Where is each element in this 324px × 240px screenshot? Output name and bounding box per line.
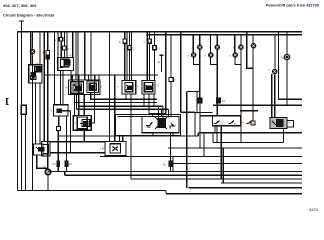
relay K9 [142,81,155,95]
svg-text:M: M [281,56,284,60]
feeder y163.5 [171,163,302,165]
svg-text:406, 407, 408, 409: 406, 407, 408, 409 [3,3,37,8]
bottom bus L3 [131,178,302,180]
relay K2 outer enclosure [115,115,180,136]
svg-text:a: a [247,45,249,49]
svg-text:4273: 4273 [309,207,319,212]
wire x72.7 [72,32,74,58]
wire K10 bottom [283,129,285,143]
pin bar P2 [65,161,67,167]
wire x64.5 upper [64,32,66,47]
wire x54.5 [54,32,56,105]
fuse F3 [46,51,50,60]
feeder y148 [168,147,302,149]
wire x287 lower [286,60,288,106]
wire K6 bottom a [59,71,61,105]
wire x61.2 mid [60,41,62,57]
wire E1 bottom to y109.3 [76,95,78,110]
wire x58 down [57,131,59,162]
fuse FB2 [129,32,131,46]
feeder y106.3 [79,105,163,107]
svg-text:x: x [205,54,207,58]
wire x33 to relay K1 [30,32,32,65]
wire x246.75 elbow to lamp line [247,32,253,69]
relay K5 box A [33,144,43,155]
wire x88 [88,75,90,81]
bus A (top supply rail) [18,31,303,33]
fuse FB1 [124,32,126,40]
switch box S3 [213,116,241,126]
svg-text:x: x [101,85,103,89]
wire E3 down [252,48,254,121]
wire x64.5 mid [64,50,66,57]
wire x84.75 [84,32,86,81]
wire x61.2 upper [60,32,62,38]
wire S3 top left [195,113,213,116]
svg-text:a: a [50,108,52,112]
contact K5 [39,148,45,151]
bottom bus L5 [188,187,302,189]
wire K2 bottom c [152,134,154,137]
relay K7 [54,105,69,116]
wire B elbow [211,58,218,65]
wire x85.4 E1 to K3 [83,95,85,116]
contact K2 left [146,122,153,127]
cap bar C2 [217,98,220,103]
svg-text:x: x [175,124,177,128]
wire X2 down pair [272,74,275,118]
relay K2 [142,116,179,132]
svg-text:Je: Je [247,122,251,126]
wire x95 [94,75,96,81]
wire below B [216,50,218,116]
lamp E2 [30,49,34,53]
wire x32.5 lower [32,54,34,190]
wire P1 down [57,167,59,172]
bottom bus L1 [48,170,302,172]
wire K2outer to K4 b [122,136,124,142]
bottom bus L2 [65,171,302,175]
svg-text:x: x [188,54,190,58]
wire K8 bottom a [125,94,127,99]
wire x127 [126,32,128,81]
wire x287 upper [286,32,288,55]
svg-text:Ja: Ja [163,163,167,167]
wire node down [47,175,49,191]
svg-text:+: + [137,85,139,89]
wire x39 to relay K1 [39,32,41,65]
svg-text:U: U [158,47,160,51]
svg-text:+H: +H [65,86,69,90]
relay K8 [122,81,136,95]
wire K5 bottom joint [36,167,48,169]
contact H1 [229,121,235,124]
bus B (second supply rail) [148,34,302,36]
connector ring M [284,54,289,59]
relay K5 box B [41,142,50,157]
wire K2 bottom b [172,134,174,137]
node X1 [45,169,51,175]
feeder y102.5 [75,102,157,104]
feeder y105.3 [213,104,302,106]
wire x47.7 long to node [47,32,49,170]
left edge bracket connector [7,99,9,105]
wire S2 bottom to y99.3 [90,93,92,100]
wire below C [240,50,242,143]
contact D [214,121,220,124]
wire below S3 a [206,126,225,133]
fuse F2 [62,46,66,50]
wire x67.1 [66,32,68,58]
svg-text:+B: +B [100,147,104,151]
feeder y156.3 [100,156,302,158]
fuse F1 [59,37,63,41]
wire x58.1 [57,32,59,58]
wire x98 [98,75,100,80]
svg-text:Circuit Diagram - Electrical: Circuit Diagram - Electrical [3,13,54,18]
contact K2 right [170,124,174,129]
bottom bus L6 jog [165,191,167,194]
wire x111 long [109,32,111,142]
contact unit S2 [87,81,98,92]
relay K3 [73,116,91,131]
short stubs into K2 [152,114,154,117]
fuse F9 [169,78,173,82]
svg-text:U: U [157,84,159,88]
feeder y109.3 [77,108,169,110]
connector pair C lower [234,35,236,53]
wire x165.8 [165,32,167,114]
wire K1 bottom right to K5 [39,83,41,144]
svg-text:x: x [229,54,231,58]
wire K5 to K4 lower [50,152,105,154]
wire K9 bottom c [153,94,155,106]
svg-text:+: + [117,85,119,89]
wire x171.1 lower [170,82,172,117]
horizontal feeder y74 [44,74,158,76]
wire K9 bottom b [148,94,150,114]
feeder y140.2 [213,142,284,144]
wire below S3 b [213,126,217,143]
svg-text:x: x [268,68,270,72]
wire x114.7 [114,75,116,142]
pin bar P1 [57,161,59,167]
lamp E3 [252,35,254,44]
box verticals x188.25 [187,92,200,189]
wire K4 bottom [110,156,112,157]
wire K9 bottom a [143,94,145,106]
wire below A [199,50,201,98]
contact unit S1 [71,82,84,93]
enclosure E1 [69,80,101,95]
wire x32.5 upper [32,32,34,49]
wire x66.5 [66,116,68,161]
wire K1 bottom left to K5 [35,83,37,144]
wire x17.5 [17,32,19,191]
relay K5 box C [43,145,48,154]
wire x91 [90,32,92,82]
wire x75.9 [75,32,77,81]
relay K4 [105,142,126,156]
feeder y99.3 [90,98,157,100]
svg-text:x: x [75,121,77,125]
elbow x168.6 into K2 [168,109,170,116]
svg-text:Powershift cab's from 432700: Powershift cab's from 432700 [266,4,319,8]
svg-text:A2: A2 [222,99,226,103]
wire x74 elbow to K3 [75,75,79,116]
svg-text:U: U [133,47,135,51]
relay K1 [29,65,42,83]
wire x21.5 [21,32,23,191]
wire K5 bottom left [36,155,38,168]
fuse FC2 [154,32,156,46]
elbow x163.1 into K2 coil [162,106,164,119]
wire K6 bottom b [62,71,64,105]
wire E1 bottom to y105.3 [78,95,80,107]
hook right of K10 [287,121,294,128]
coil K2 [158,119,166,128]
wire x223.25 [222,148,224,183]
relay K10 [270,118,287,129]
connector pair B lower [209,35,211,53]
connector pair C upper [240,35,242,45]
feeder y113.6 [149,113,166,115]
wire x25.5 [25,114,27,190]
wire x131.5 [131,32,133,81]
relay K6 [58,57,74,70]
svg-text:62: 62 [69,162,73,166]
wire A elbow [193,58,199,65]
wire K7 bottom [58,116,60,127]
svg-text:x: x [36,139,38,143]
wire x78 [77,32,79,81]
bottom bus L6 right [166,193,302,195]
svg-text:-D: -D [220,121,224,125]
wire x80.5 [71,75,73,82]
wire into S3 [181,32,195,136]
svg-text:4e: 4e [241,120,245,124]
wire P2 down [66,167,68,172]
wire x96.8 elbow to K3 [91,75,94,123]
connector pair B upper [216,35,218,45]
wire x44.3 [43,32,45,142]
wire x171.1 upper [170,35,172,78]
long feeder y132.8 [198,132,302,134]
wire K3 bottom [83,130,85,141]
bottom bus L4 [221,182,302,184]
svg-text:H: H [234,121,236,125]
wire K5 to K4 upper [50,141,105,143]
wire K6 bottom c [70,71,72,81]
terminal 30 cap [19,21,24,32]
connector pair A lower [192,35,194,53]
wire x147.25 [146,32,148,81]
svg-text:64: 64 [53,162,57,166]
svg-text:K: K [175,78,177,82]
wire K2outer to K4 a [118,136,120,142]
bottom bus L6 left [18,190,167,192]
wire K8 bottom b long [130,94,132,179]
svg-text:x: x [55,38,57,42]
wire x278.4 [278,32,302,100]
node X2 [274,35,276,69]
fuse FC1 [149,32,151,40]
svg-text:a: a [144,40,146,44]
jog x198.25 [197,133,199,136]
cap bar C1 [198,98,201,103]
svg-text:a: a [70,53,72,57]
feeder y110.7 stub [240,110,258,112]
svg-text:Ja: Ja [157,60,161,64]
svg-text:a: a [119,40,121,44]
connector pair A upper [199,35,201,45]
wire K2 bottom a [172,157,174,172]
wire below S3 c [220,126,222,179]
wire C elbow [235,58,241,65]
fuse F8 on x21.5 [21,105,26,114]
terminal T2 [160,55,164,72]
connector small box below K7 [57,127,61,131]
connector end Je [251,121,255,125]
wire x204 [203,132,205,157]
wire C1 down [199,103,201,148]
long feeder y135.5 [58,135,198,137]
cap bar C3 [170,133,172,161]
wire S1 bottom to y102.5 [74,94,76,103]
contact H2 [247,121,253,124]
